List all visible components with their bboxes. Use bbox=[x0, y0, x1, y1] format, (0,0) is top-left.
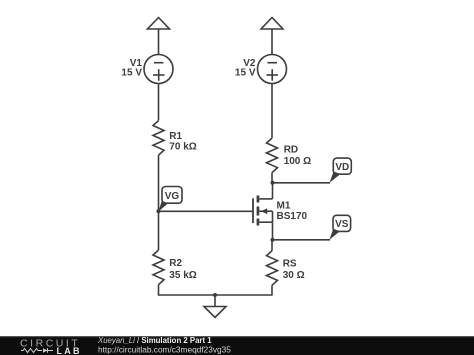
ground junction bbox=[213, 293, 217, 297]
svg-text:LAB: LAB bbox=[57, 346, 81, 355]
svg-text:70 kΩ: 70 kΩ bbox=[169, 142, 196, 153]
voltage source V2 bbox=[235, 55, 287, 84]
svg-text:http://circuitlab.com/c3meqdf2: http://circuitlab.com/c3meqdf23vg35 bbox=[98, 345, 231, 355]
svg-text:RD: RD bbox=[284, 145, 298, 156]
svg-text:VS: VS bbox=[335, 219, 349, 230]
footer bar bbox=[0, 336, 474, 355]
svg-text:BS170: BS170 bbox=[277, 211, 308, 222]
CircuitLab logo resistor glyph bbox=[21, 348, 53, 352]
svg-text:35 kΩ: 35 kΩ bbox=[169, 270, 196, 281]
svg-text:VD: VD bbox=[335, 162, 349, 173]
node VS junction bbox=[271, 238, 275, 242]
wire bbox=[271, 84, 273, 139]
wire bbox=[271, 173, 273, 183]
svg-text:15 V: 15 V bbox=[121, 68, 142, 79]
wire (VS tap) bbox=[273, 239, 331, 241]
node VD junction bbox=[271, 181, 275, 185]
transistor M1 bbox=[253, 196, 308, 226]
wire bbox=[158, 155, 160, 250]
svg-text:VG: VG bbox=[165, 191, 180, 202]
svg-text:30 Ω: 30 Ω bbox=[283, 270, 305, 281]
voltage source V1 bbox=[121, 55, 173, 84]
svg-text:100 Ω: 100 Ω bbox=[284, 156, 311, 167]
wire (drain) bbox=[272, 183, 274, 199]
resistor RS bbox=[267, 251, 305, 285]
resistor R1 bbox=[153, 121, 197, 156]
node VG junction bbox=[156, 209, 160, 213]
node arrow (top of V2) bbox=[261, 18, 283, 30]
wire bbox=[271, 28, 273, 54]
svg-text:RS: RS bbox=[283, 258, 297, 269]
wire (source) bbox=[272, 222, 274, 240]
resistor RD bbox=[267, 138, 312, 173]
wire bbox=[159, 285, 273, 295]
node flag VG bbox=[158, 187, 182, 212]
node flag VD bbox=[330, 158, 352, 183]
wire bbox=[271, 285, 273, 295]
svg-text:M1: M1 bbox=[277, 200, 291, 211]
wire (VD tap) bbox=[273, 182, 331, 184]
svg-text:R1: R1 bbox=[169, 131, 182, 142]
ground bbox=[204, 295, 226, 318]
wire bbox=[158, 28, 160, 54]
svg-text:Xueyan_Li / Simulation 2 Part: Xueyan_Li / Simulation 2 Part 1 bbox=[97, 336, 212, 345]
node arrow (top of V1) bbox=[148, 18, 170, 30]
node flag VS bbox=[329, 215, 350, 240]
wire (gate) bbox=[158, 210, 253, 212]
svg-text:R2: R2 bbox=[169, 258, 182, 269]
wire bbox=[158, 84, 160, 121]
wire bbox=[271, 240, 273, 251]
resistor R2 bbox=[153, 250, 197, 285]
svg-text:15 V: 15 V bbox=[235, 68, 256, 79]
